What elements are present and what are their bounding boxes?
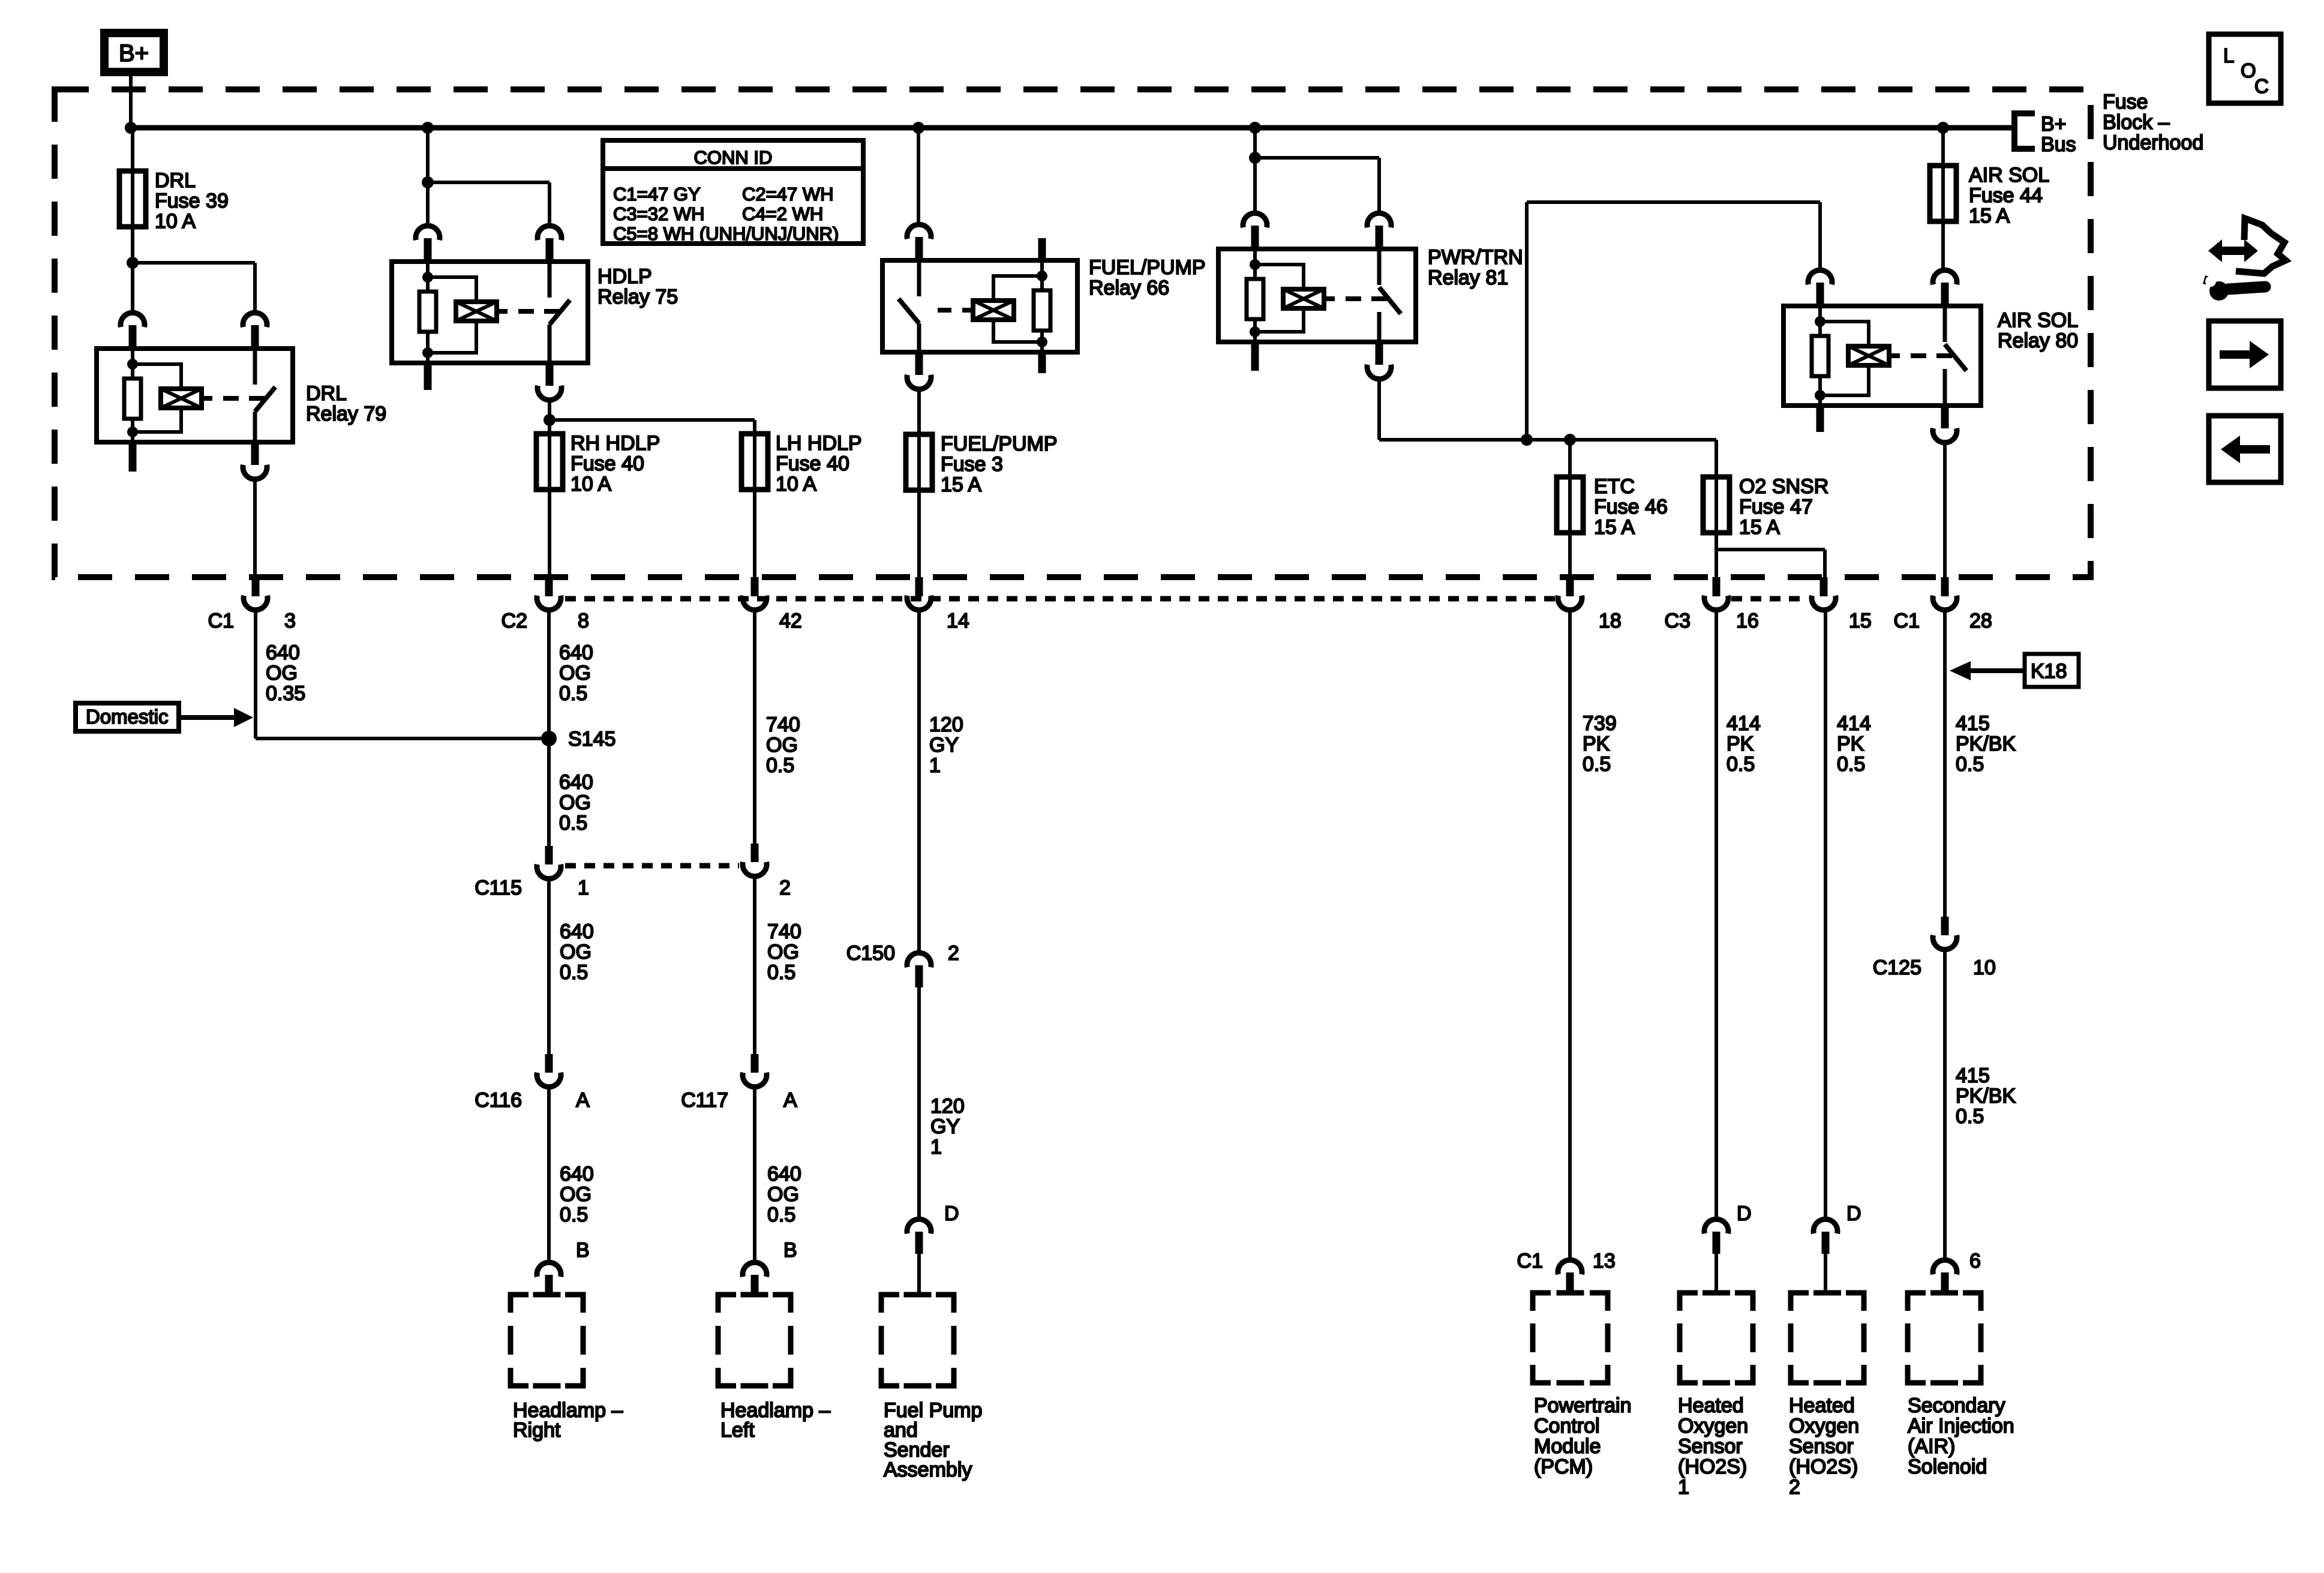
svg-text:120: 120 <box>929 713 963 736</box>
svg-text:B: B <box>783 1239 797 1262</box>
svg-text:2: 2 <box>1789 1476 1800 1499</box>
svg-text:Solenoid: Solenoid <box>1908 1455 1987 1478</box>
svg-text:0.5: 0.5 <box>766 754 794 777</box>
svg-text:GY: GY <box>929 734 959 757</box>
svg-text:14: 14 <box>947 610 969 632</box>
svg-text:415: 415 <box>1956 712 1990 735</box>
svg-text:Fuse 44: Fuse 44 <box>1969 184 2043 207</box>
svg-text:OG: OG <box>767 1183 799 1206</box>
svg-text:15 A: 15 A <box>1594 516 1635 539</box>
svg-text:(HO2S): (HO2S) <box>1789 1455 1858 1478</box>
svg-text:Powertrain: Powertrain <box>1534 1394 1632 1417</box>
svg-text:PK: PK <box>1727 733 1754 755</box>
svg-text:C3: C3 <box>1665 610 1691 632</box>
svg-text:1: 1 <box>930 1136 942 1158</box>
svg-text:S145: S145 <box>568 728 615 751</box>
svg-text:120: 120 <box>930 1095 965 1118</box>
svg-text:0.5: 0.5 <box>1727 753 1755 776</box>
svg-text:2: 2 <box>779 876 791 899</box>
svg-text:Relay 79: Relay 79 <box>306 403 386 425</box>
svg-text:Control: Control <box>1534 1415 1600 1437</box>
svg-text:FUEL/PUMP: FUEL/PUMP <box>1089 256 1206 279</box>
svg-text:0.35: 0.35 <box>266 682 305 705</box>
svg-text:C1=47 GY: C1=47 GY <box>613 184 701 205</box>
svg-text:Sensor: Sensor <box>1678 1435 1743 1458</box>
svg-text:B+: B+ <box>119 40 149 67</box>
svg-text:C117: C117 <box>681 1089 728 1112</box>
svg-text:LH HDLP: LH HDLP <box>776 432 862 455</box>
svg-text:1: 1 <box>578 876 589 899</box>
svg-text:0.5: 0.5 <box>559 812 587 834</box>
svg-text:C5=8 WH (UNH/UNJ/UNR): C5=8 WH (UNH/UNJ/UNR) <box>613 223 839 244</box>
svg-text:PK: PK <box>1837 733 1864 755</box>
svg-text:Domestic: Domestic <box>86 706 169 728</box>
svg-text:Block –: Block – <box>2103 111 2170 134</box>
svg-text:1: 1 <box>929 754 941 777</box>
svg-text:PWR/TRN: PWR/TRN <box>1428 246 1523 269</box>
svg-text:Relay 66: Relay 66 <box>1089 277 1169 299</box>
svg-text:Oxygen: Oxygen <box>1789 1415 1859 1437</box>
svg-text:0.5: 0.5 <box>1837 753 1865 776</box>
svg-text:740: 740 <box>766 713 800 736</box>
svg-text:C1: C1 <box>208 610 234 632</box>
svg-text:0.5: 0.5 <box>560 961 588 984</box>
svg-text:640: 640 <box>266 641 300 664</box>
svg-text:C: C <box>2254 75 2269 97</box>
svg-text:414: 414 <box>1727 712 1761 735</box>
svg-text:10 A: 10 A <box>571 473 611 496</box>
svg-text:C125: C125 <box>1873 956 1921 979</box>
svg-text:A: A <box>576 1089 590 1112</box>
svg-text:ETC: ETC <box>1594 475 1635 498</box>
svg-text:Left: Left <box>720 1419 755 1442</box>
svg-text:RH HDLP: RH HDLP <box>571 432 660 455</box>
svg-text:18: 18 <box>1599 610 1622 632</box>
svg-text:Air Injection: Air Injection <box>1908 1415 2014 1437</box>
svg-text:Fuse 46: Fuse 46 <box>1594 496 1668 518</box>
svg-text:(PCM): (PCM) <box>1534 1455 1593 1478</box>
svg-text:Bus: Bus <box>2041 133 2076 156</box>
svg-text:OG: OG <box>559 791 591 814</box>
svg-text:Fuse 3: Fuse 3 <box>941 453 1003 476</box>
svg-text:O: O <box>2241 59 2256 82</box>
svg-text:16: 16 <box>1736 610 1759 632</box>
svg-text:640: 640 <box>560 1163 594 1185</box>
svg-text:42: 42 <box>779 610 802 632</box>
svg-text:C3=32 WH: C3=32 WH <box>613 203 704 224</box>
svg-text:Secondary: Secondary <box>1908 1394 2005 1417</box>
svg-text:CONN ID: CONN ID <box>694 147 773 168</box>
svg-text:15 A: 15 A <box>1739 516 1780 539</box>
svg-text:OG: OG <box>560 941 591 963</box>
svg-text:2: 2 <box>948 942 959 965</box>
svg-text:15 A: 15 A <box>1969 205 2010 227</box>
svg-text:640: 640 <box>559 641 593 664</box>
svg-text:739: 739 <box>1583 712 1617 735</box>
svg-text:OG: OG <box>766 734 798 757</box>
svg-text:C4=2 WH: C4=2 WH <box>742 203 823 224</box>
svg-text:640: 640 <box>559 771 593 794</box>
svg-text:0.5: 0.5 <box>1956 753 1984 776</box>
svg-text:O2 SNSR: O2 SNSR <box>1739 475 1828 498</box>
svg-text:10 A: 10 A <box>155 210 196 233</box>
svg-text:C2=47 WH: C2=47 WH <box>742 184 833 205</box>
svg-text:OG: OG <box>266 662 298 685</box>
svg-text:Right: Right <box>513 1419 561 1442</box>
svg-text:OG: OG <box>767 941 799 963</box>
svg-text:Fuse: Fuse <box>2103 91 2148 113</box>
svg-text:AIR SOL: AIR SOL <box>1998 309 2078 332</box>
svg-text:10 A: 10 A <box>776 473 816 496</box>
svg-text:Sensor: Sensor <box>1789 1435 1854 1458</box>
svg-text:640: 640 <box>767 1163 801 1185</box>
svg-text:15 A: 15 A <box>941 473 981 496</box>
svg-text:K18: K18 <box>2031 660 2067 683</box>
svg-text:Module: Module <box>1534 1435 1601 1458</box>
svg-text:Heated: Heated <box>1678 1394 1744 1417</box>
svg-text:Heated: Heated <box>1789 1394 1855 1417</box>
svg-text:Fuse 47: Fuse 47 <box>1739 496 1813 518</box>
svg-text:15: 15 <box>1849 610 1872 632</box>
svg-text:FUEL/PUMP: FUEL/PUMP <box>941 433 1058 455</box>
svg-text:D: D <box>1737 1202 1752 1225</box>
svg-text:C1: C1 <box>1517 1250 1543 1272</box>
svg-text:OG: OG <box>559 662 591 685</box>
svg-text:D: D <box>944 1202 959 1225</box>
svg-text:414: 414 <box>1837 712 1871 735</box>
svg-text:C1: C1 <box>1894 610 1920 632</box>
svg-text:C2: C2 <box>502 610 527 632</box>
svg-text:8: 8 <box>578 610 589 632</box>
svg-text:OG: OG <box>560 1183 591 1206</box>
svg-text:640: 640 <box>560 920 594 943</box>
svg-text:PK/BK: PK/BK <box>1956 733 2016 755</box>
svg-text:0.5: 0.5 <box>767 1203 795 1226</box>
svg-text:C150: C150 <box>846 942 895 965</box>
svg-text:HDLP: HDLP <box>597 265 652 288</box>
svg-text:740: 740 <box>767 920 801 943</box>
svg-text:13: 13 <box>1593 1250 1616 1272</box>
svg-text:D: D <box>1846 1202 1861 1225</box>
svg-text:GY: GY <box>930 1115 960 1138</box>
svg-text:Fuse 39: Fuse 39 <box>155 190 229 212</box>
svg-text:PK: PK <box>1583 733 1610 755</box>
svg-text:C115: C115 <box>475 876 522 899</box>
svg-text:Relay 80: Relay 80 <box>1998 329 2078 352</box>
svg-text:Oxygen: Oxygen <box>1678 1415 1748 1437</box>
svg-text:AIR SOL: AIR SOL <box>1969 164 2049 187</box>
svg-text:B: B <box>576 1239 590 1262</box>
svg-text:PK/BK: PK/BK <box>1956 1085 2016 1107</box>
svg-text:DRL: DRL <box>306 382 347 405</box>
svg-text:3: 3 <box>284 610 296 632</box>
svg-text:0.5: 0.5 <box>559 682 587 705</box>
svg-text:1: 1 <box>1678 1476 1689 1499</box>
svg-text:Fuse 40: Fuse 40 <box>776 452 849 475</box>
svg-text:L: L <box>2223 44 2234 67</box>
svg-text:0.5: 0.5 <box>1583 753 1611 776</box>
svg-text:0.5: 0.5 <box>1956 1105 1984 1128</box>
svg-text:(AIR): (AIR) <box>1908 1435 1955 1458</box>
svg-text:Relay 75: Relay 75 <box>597 286 678 308</box>
svg-text:Underhood: Underhood <box>2103 131 2203 154</box>
svg-text:0.5: 0.5 <box>560 1203 588 1226</box>
svg-text:B+: B+ <box>2041 113 2067 136</box>
svg-text:415: 415 <box>1956 1064 1990 1087</box>
svg-text:Assembly: Assembly <box>884 1458 972 1481</box>
svg-text:(HO2S): (HO2S) <box>1678 1455 1747 1478</box>
svg-text:C116: C116 <box>475 1089 522 1112</box>
svg-text:Fuse 40: Fuse 40 <box>571 452 644 475</box>
svg-text:DRL: DRL <box>155 169 196 192</box>
svg-text:10: 10 <box>1973 956 1996 979</box>
svg-text:28: 28 <box>1969 610 1992 632</box>
svg-text:A: A <box>783 1089 797 1112</box>
svg-text:6: 6 <box>1969 1250 1981 1272</box>
svg-text:Relay 81: Relay 81 <box>1428 266 1508 289</box>
svg-text:0.5: 0.5 <box>767 961 795 984</box>
